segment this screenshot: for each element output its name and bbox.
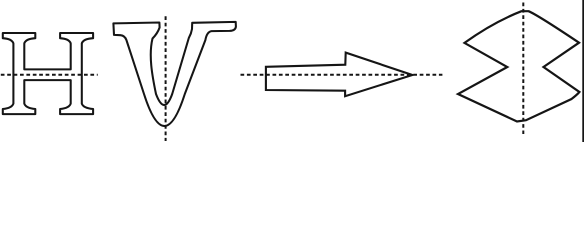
zigzag double-chevron shape xyxy=(458,11,579,121)
horizontal symmetry axis through H xyxy=(1,74,98,76)
vertical symmetry axis through zigzag shape xyxy=(522,3,524,135)
outline letter V xyxy=(113,22,235,126)
horizontal symmetry axis through arrow xyxy=(241,74,443,76)
right border line xyxy=(582,0,584,142)
block arrow pointing right xyxy=(266,53,413,97)
outline letter H xyxy=(3,33,93,114)
vertical symmetry axis through V xyxy=(165,16,167,141)
